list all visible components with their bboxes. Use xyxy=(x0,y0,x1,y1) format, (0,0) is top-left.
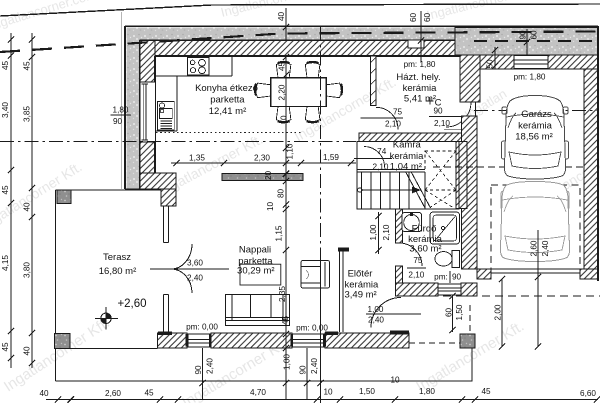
bottom main dimension chain xyxy=(46,399,598,401)
svg-text:parketta: parketta xyxy=(210,95,245,106)
living west door jamb upper xyxy=(164,206,169,243)
svg-text:pm: 1,80: pm: 1,80 xyxy=(514,73,546,82)
svg-text:75: 75 xyxy=(393,108,403,117)
dashed line in garage top wall xyxy=(474,40,598,42)
terrace bottom edge xyxy=(70,348,158,350)
wc window lower chain xyxy=(452,296,454,332)
stair box xyxy=(357,142,459,210)
kitchen counter left xyxy=(155,76,177,131)
svg-text:16,80 m²: 16,80 m² xyxy=(99,266,137,277)
svg-text:Konyha étkező: Konyha étkező xyxy=(195,83,258,94)
chair right xyxy=(326,83,341,98)
gallery parapet band xyxy=(222,174,303,181)
garage west wall xyxy=(462,116,478,269)
svg-text:5,41 m²: 5,41 m² xyxy=(404,94,436,105)
kitchen west window xyxy=(140,82,156,142)
west wall step hatch xyxy=(140,173,176,189)
svg-text:kerámia: kerámia xyxy=(390,151,425,162)
stair break diagonal xyxy=(406,173,431,209)
section line horizontal left xyxy=(0,141,356,143)
svg-text:1,50: 1,50 xyxy=(455,304,464,320)
svg-text:10: 10 xyxy=(323,388,333,397)
level marker xyxy=(95,307,118,330)
svg-text:18,56 m²: 18,56 m² xyxy=(515,132,553,143)
svg-text:2,40: 2,40 xyxy=(310,358,319,374)
svg-text:1,04 m²: 1,04 m² xyxy=(390,162,422,173)
terrace pillar top xyxy=(57,190,71,204)
west wall bottom edge xyxy=(125,188,161,190)
dashed parking stall rect xyxy=(491,185,580,273)
top chain 40 xyxy=(285,8,287,41)
west wall hatched leaf upper xyxy=(140,41,155,82)
svg-text:45: 45 xyxy=(144,389,154,398)
garage front wall corner block east xyxy=(580,269,598,279)
svg-text:10: 10 xyxy=(280,115,289,125)
svg-text:Terasz: Terasz xyxy=(103,252,131,263)
svg-text:6,60: 6,60 xyxy=(580,389,596,398)
chimney chain 60-60 xyxy=(420,11,422,62)
dashed upper floor contour over garage xyxy=(433,166,584,168)
car on driveway (grey) xyxy=(500,182,569,262)
kamra door arc xyxy=(364,147,385,168)
chair bottom-right xyxy=(305,107,320,122)
svg-text:1,50: 1,50 xyxy=(359,387,375,396)
garage top wall inner hatched leaf xyxy=(477,55,598,69)
central vertical chain x286 xyxy=(285,57,287,400)
svg-text:50: 50 xyxy=(486,59,495,69)
dotted kitchen/living boundary xyxy=(156,132,303,134)
svg-text:Előtér: Előtér xyxy=(348,269,373,280)
svg-text:2,60: 2,60 xyxy=(530,240,539,256)
svg-text:45: 45 xyxy=(281,316,290,326)
terrace pillar bottom xyxy=(55,334,71,349)
dashed parking cross xyxy=(531,220,543,232)
west wall hatched leaf lower xyxy=(140,142,155,173)
wc south wall east part xyxy=(461,283,477,296)
chimney block xyxy=(408,40,424,48)
svg-text:2,30: 2,30 xyxy=(254,154,270,163)
terrace left edge xyxy=(55,190,57,381)
svg-text:Kamra: Kamra xyxy=(393,140,422,151)
svg-text:3,85: 3,85 xyxy=(23,106,32,122)
entrance door arc xyxy=(371,298,401,328)
bottom window 2 xyxy=(292,334,325,347)
svg-text:20: 20 xyxy=(264,171,273,181)
bathroom door arc xyxy=(399,243,422,266)
garage east outer line xyxy=(597,26,599,281)
dashed entrance porch line xyxy=(409,342,460,344)
svg-text:2,10: 2,10 xyxy=(382,224,391,240)
chimney mark +C xyxy=(427,98,434,105)
svg-text:2,40: 2,40 xyxy=(187,274,203,283)
svg-text:10: 10 xyxy=(266,202,275,212)
living west hatch block xyxy=(161,189,176,206)
svg-text:pm: 0,00: pm: 0,00 xyxy=(186,323,218,332)
dashed driveway edge line xyxy=(430,295,600,297)
svg-text:pm: 1,80: pm: 1,80 xyxy=(404,60,436,69)
svg-text:1,10: 1,10 xyxy=(286,143,295,159)
svg-text:pm:: pm: xyxy=(434,273,448,282)
svg-text:60: 60 xyxy=(530,30,539,40)
svg-text:45: 45 xyxy=(1,61,10,71)
svg-text:3,40: 3,40 xyxy=(1,102,10,118)
wc south wall west part xyxy=(396,283,439,296)
svg-text:90: 90 xyxy=(113,117,123,126)
terrace door label divider xyxy=(150,268,229,270)
svg-text:2,00: 2,00 xyxy=(494,304,503,320)
svg-text:45: 45 xyxy=(1,342,10,352)
bottom wall segment east xyxy=(325,333,409,348)
svg-text:1,80: 1,80 xyxy=(419,387,435,396)
toilet xyxy=(435,251,460,268)
utility west wall xyxy=(371,56,377,106)
svg-text:90: 90 xyxy=(452,273,462,282)
top wall outer line xyxy=(125,25,598,27)
svg-text:40: 40 xyxy=(23,202,32,212)
svg-text:3,49 m²: 3,49 m² xyxy=(344,290,376,301)
left dimension chain 1 xyxy=(10,33,12,368)
svg-text:45: 45 xyxy=(23,61,32,71)
garage top window xyxy=(514,56,548,69)
section line horizontal garage xyxy=(474,110,597,112)
stair void dashed xyxy=(425,151,456,208)
svg-text:3,60 m²: 3,60 m² xyxy=(409,244,441,255)
car in garage xyxy=(502,96,569,180)
svg-text:Házt. hely.: Házt. hely. xyxy=(396,72,440,83)
svg-text:60: 60 xyxy=(409,13,418,23)
window2 bottom chain xyxy=(306,348,308,400)
svg-text:Fürdő: Fürdő xyxy=(412,224,437,235)
svg-text:2,40: 2,40 xyxy=(206,358,215,374)
FURNITURE xyxy=(95,57,570,330)
svg-text:+2,60: +2,60 xyxy=(117,298,146,310)
dining table xyxy=(271,78,327,107)
garage 2,60-2,40 chain xyxy=(537,230,539,347)
svg-text:2,40: 2,40 xyxy=(541,240,550,256)
bottom window 1 xyxy=(187,334,211,347)
svg-text:kerámia: kerámia xyxy=(518,121,553,132)
wc window chain xyxy=(449,271,451,283)
svg-text:75: 75 xyxy=(413,256,423,265)
svg-text:90: 90 xyxy=(194,365,203,375)
svg-text:1,35: 1,35 xyxy=(189,154,205,163)
terrace door arcs xyxy=(171,244,192,293)
garage front wall corner block west xyxy=(477,269,491,279)
svg-text:3,60: 3,60 xyxy=(187,259,203,268)
terrace top edge xyxy=(56,189,162,191)
bathroom west wall lower strip xyxy=(396,266,403,284)
kitchen horizontal chain xyxy=(171,162,356,164)
svg-text:1,80: 1,80 xyxy=(113,106,129,115)
entrance bottom chain xyxy=(320,256,322,400)
utility door2 arc xyxy=(446,102,471,127)
svg-text:1,59: 1,59 xyxy=(323,153,339,162)
svg-text:4,70: 4,70 xyxy=(250,388,266,397)
kitchen sink unit xyxy=(158,102,175,131)
kitchen counter top xyxy=(155,57,232,76)
svg-text:2,40: 2,40 xyxy=(368,316,384,325)
stairs top wall xyxy=(359,133,462,142)
stove xyxy=(188,58,210,76)
wc south window xyxy=(438,284,461,295)
living west wall lower jamb xyxy=(164,295,169,335)
svg-text:90: 90 xyxy=(299,365,308,375)
svg-text:45: 45 xyxy=(1,185,10,195)
svg-text:60: 60 xyxy=(445,308,454,318)
WALLS xyxy=(55,26,599,381)
svg-text:12,41 m²: 12,41 m² xyxy=(209,106,247,117)
section line vertical xyxy=(320,27,322,403)
svg-text:45: 45 xyxy=(278,62,287,72)
svg-text:pm: 0,00: pm: 0,00 xyxy=(296,324,328,333)
svg-text:80: 80 xyxy=(277,189,286,199)
chair top-left xyxy=(276,63,291,78)
west wall insulation speckle xyxy=(127,28,140,190)
left dimension chain 2 xyxy=(31,33,33,368)
chair bottom-left xyxy=(276,107,291,122)
stairs treads xyxy=(362,172,426,209)
svg-text:2,60: 2,60 xyxy=(105,389,121,398)
top wall garage speckle xyxy=(455,28,598,56)
svg-text:10: 10 xyxy=(390,376,400,385)
south walkway slab xyxy=(56,348,473,381)
roof overhang left grey line xyxy=(121,12,123,189)
svg-text:40: 40 xyxy=(39,389,49,398)
roof overhang slanted line xyxy=(0,4,600,16)
svg-text:1,15: 1,15 xyxy=(275,225,284,241)
dashed vertical at entrance/driveway xyxy=(469,305,471,331)
bottom window end caps xyxy=(186,334,326,347)
bottom wall segment mid xyxy=(211,333,292,348)
utility door1 arc xyxy=(376,107,398,129)
garage front 2,00 chain xyxy=(501,279,503,347)
svg-text:74: 74 xyxy=(377,147,387,156)
chair left xyxy=(256,83,271,98)
svg-text:40: 40 xyxy=(23,346,32,356)
garage window 90-60 chain xyxy=(526,29,528,56)
window1 bottom chain xyxy=(202,348,204,400)
bottom wall segment SW xyxy=(158,333,188,348)
svg-text:90: 90 xyxy=(433,107,443,116)
svg-text:40: 40 xyxy=(277,12,286,22)
sofa xyxy=(226,295,290,326)
svg-text:1,00: 1,00 xyxy=(283,354,292,370)
svg-text:45: 45 xyxy=(481,387,491,396)
svg-text:Garázs: Garázs xyxy=(521,109,552,120)
garage 50 chain xyxy=(494,47,496,69)
svg-text:2,20: 2,20 xyxy=(278,84,287,100)
svg-text:1,00: 1,00 xyxy=(369,224,378,240)
svg-text:3,80: 3,80 xyxy=(23,262,32,278)
chair top-right xyxy=(305,63,320,78)
svg-text:2,35: 2,35 xyxy=(278,286,287,302)
svg-text:1,00: 1,00 xyxy=(368,305,384,314)
top wall insulation speckle (kitchen/utility) xyxy=(127,28,461,41)
eloter west wall xyxy=(340,250,344,333)
svg-text:2,10: 2,10 xyxy=(385,120,401,129)
garage east wall xyxy=(584,69,598,269)
svg-text:2,10: 2,10 xyxy=(373,163,389,172)
utility jamb tick xyxy=(475,102,477,117)
svg-text:2,10: 2,10 xyxy=(434,119,450,128)
utility east / garage west wall upper xyxy=(460,55,480,102)
bath sink xyxy=(402,213,422,232)
armchair xyxy=(301,261,330,289)
svg-text:kerámia: kerámia xyxy=(403,83,438,94)
svg-text:4,15: 4,15 xyxy=(1,255,10,271)
svg-text:60: 60 xyxy=(423,13,432,23)
property dashed slant line xyxy=(0,32,600,53)
shower xyxy=(430,212,460,244)
top wall inner hatched leaf xyxy=(140,41,460,56)
garage door panel xyxy=(491,269,580,273)
svg-text:90: 90 xyxy=(519,30,528,40)
bathroom west wall upper strip xyxy=(396,209,403,243)
stairs right wall xyxy=(456,142,467,209)
kamra front wall xyxy=(357,170,425,173)
svg-text:Nappali: Nappali xyxy=(239,245,271,256)
entrance pillar xyxy=(460,334,475,348)
svg-text:2,10: 2,10 xyxy=(408,271,424,280)
eloter opening chain xyxy=(378,212,380,254)
west wall outer line xyxy=(124,26,126,189)
stair arrow xyxy=(358,187,421,194)
svg-text:30,29 m²: 30,29 m² xyxy=(237,266,275,277)
